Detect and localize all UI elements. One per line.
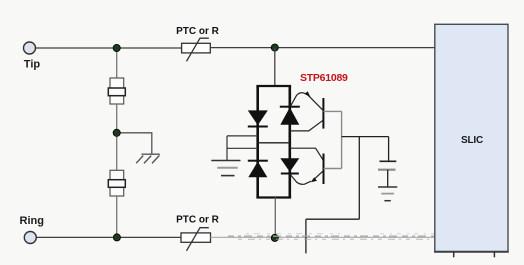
transistor T1 emitter (arrow into bar): [291, 93, 309, 106]
wire fuse F2 to SLIC (faded under watermark): [211, 236, 435, 238]
bridge middle rung: [258, 142, 290, 144]
svg-text:PTC or R: PTC or R: [176, 215, 220, 226]
wire capacitor to ground: [387, 170, 389, 187]
wire collector tie (gray vertical): [341, 111, 343, 168]
SLIC block: [435, 24, 508, 252]
chassis ground: [136, 154, 160, 163]
svg-text:Tip: Tip: [24, 59, 41, 71]
PTC fuse F2 diagonal stroke: [187, 228, 209, 251]
wire node B down to bridge: [274, 48, 276, 86]
PTC fuse F1 body: [182, 43, 211, 53]
wire resistor RA to node C: [116, 104, 118, 133]
wire node A down to resistor RA: [116, 48, 118, 78]
wire node C to resistor RB: [116, 133, 118, 170]
wire capacitor drop: [388, 137, 390, 161]
svg-text:SLIC: SLIC: [461, 135, 483, 146]
bridge outline bottom bar: [256, 196, 291, 198]
svg-text:PTC or R: PTC or R: [176, 26, 220, 37]
wire gate lead down: [358, 137, 360, 220]
wire resistor RB to node D: [116, 196, 118, 237]
diode D3 bottom-left (pointing up): [248, 160, 268, 178]
diode D4 bottom-right (pointing down): [280, 158, 299, 174]
terminal Tip: [24, 42, 36, 54]
wire right column to T2 base: [290, 148, 324, 160]
terminal Ring: [24, 232, 36, 244]
bridge outline right column: [288, 86, 291, 198]
PTC fuse F2 body: [181, 233, 211, 242]
earth ground (bridge): [211, 161, 240, 176]
wire node D to fuse F2: [117, 236, 181, 238]
resistor RB middle band: [108, 180, 125, 188]
node A junction dot: [113, 44, 120, 51]
wire bridge mid-node to ground (upper): [227, 135, 258, 137]
transistor T2 emitter (arrow outward): [291, 175, 312, 185]
wire bridge bottom to node E: [274, 198, 276, 238]
wire gate stub to VBAT: [305, 219, 307, 253]
node C junction dot: [113, 129, 120, 136]
wire ground drop: [226, 136, 228, 160]
SLIC pin stub 1: [453, 252, 455, 257]
wire Tip to node A: [36, 47, 117, 49]
capacitor C1 top plate: [380, 160, 397, 162]
PTC fuse F1 diagonal stroke: [187, 38, 209, 61]
resistor RA middle band: [108, 88, 125, 96]
wire right column to T1 base: [290, 120, 323, 131]
svg-text:STP61089: STP61089: [300, 72, 348, 84]
node E junction dot: [271, 234, 278, 241]
diode D2 top-right (pointing up): [280, 106, 300, 125]
diode D1 top-left (pointing down): [248, 110, 268, 127]
wire collector node to capacitor: [342, 136, 389, 138]
resistor RB body: [110, 170, 124, 196]
wire bridge mid-node to ground (lower): [227, 147, 258, 149]
capacitor C1 bottom plate: [378, 169, 396, 171]
watermark dashes: [228, 234, 455, 240]
transistor T2 base bar: [323, 154, 325, 185]
wire Ring to node D: [37, 236, 117, 238]
wire gate lead horizontal: [306, 218, 359, 220]
transistor T1 collector: [323, 110, 341, 112]
bridge outline top bar: [256, 85, 291, 87]
earth ground (capacitor): [378, 187, 397, 201]
transistor T2 collector: [324, 168, 342, 170]
resistor RA body: [110, 78, 124, 104]
node D junction dot: [113, 234, 120, 241]
bridge outline left column: [256, 86, 259, 198]
svg-text:Ring: Ring: [20, 215, 44, 227]
node B junction dot: [271, 44, 278, 51]
wire node A to fuse F1: [117, 47, 182, 49]
wire node C to chassis ground: [117, 133, 152, 154]
transistor T1 base bar: [322, 98, 324, 129]
SLIC pin stub 2: [493, 252, 495, 257]
wire fuse F1 to SLIC: [210, 47, 435, 49]
